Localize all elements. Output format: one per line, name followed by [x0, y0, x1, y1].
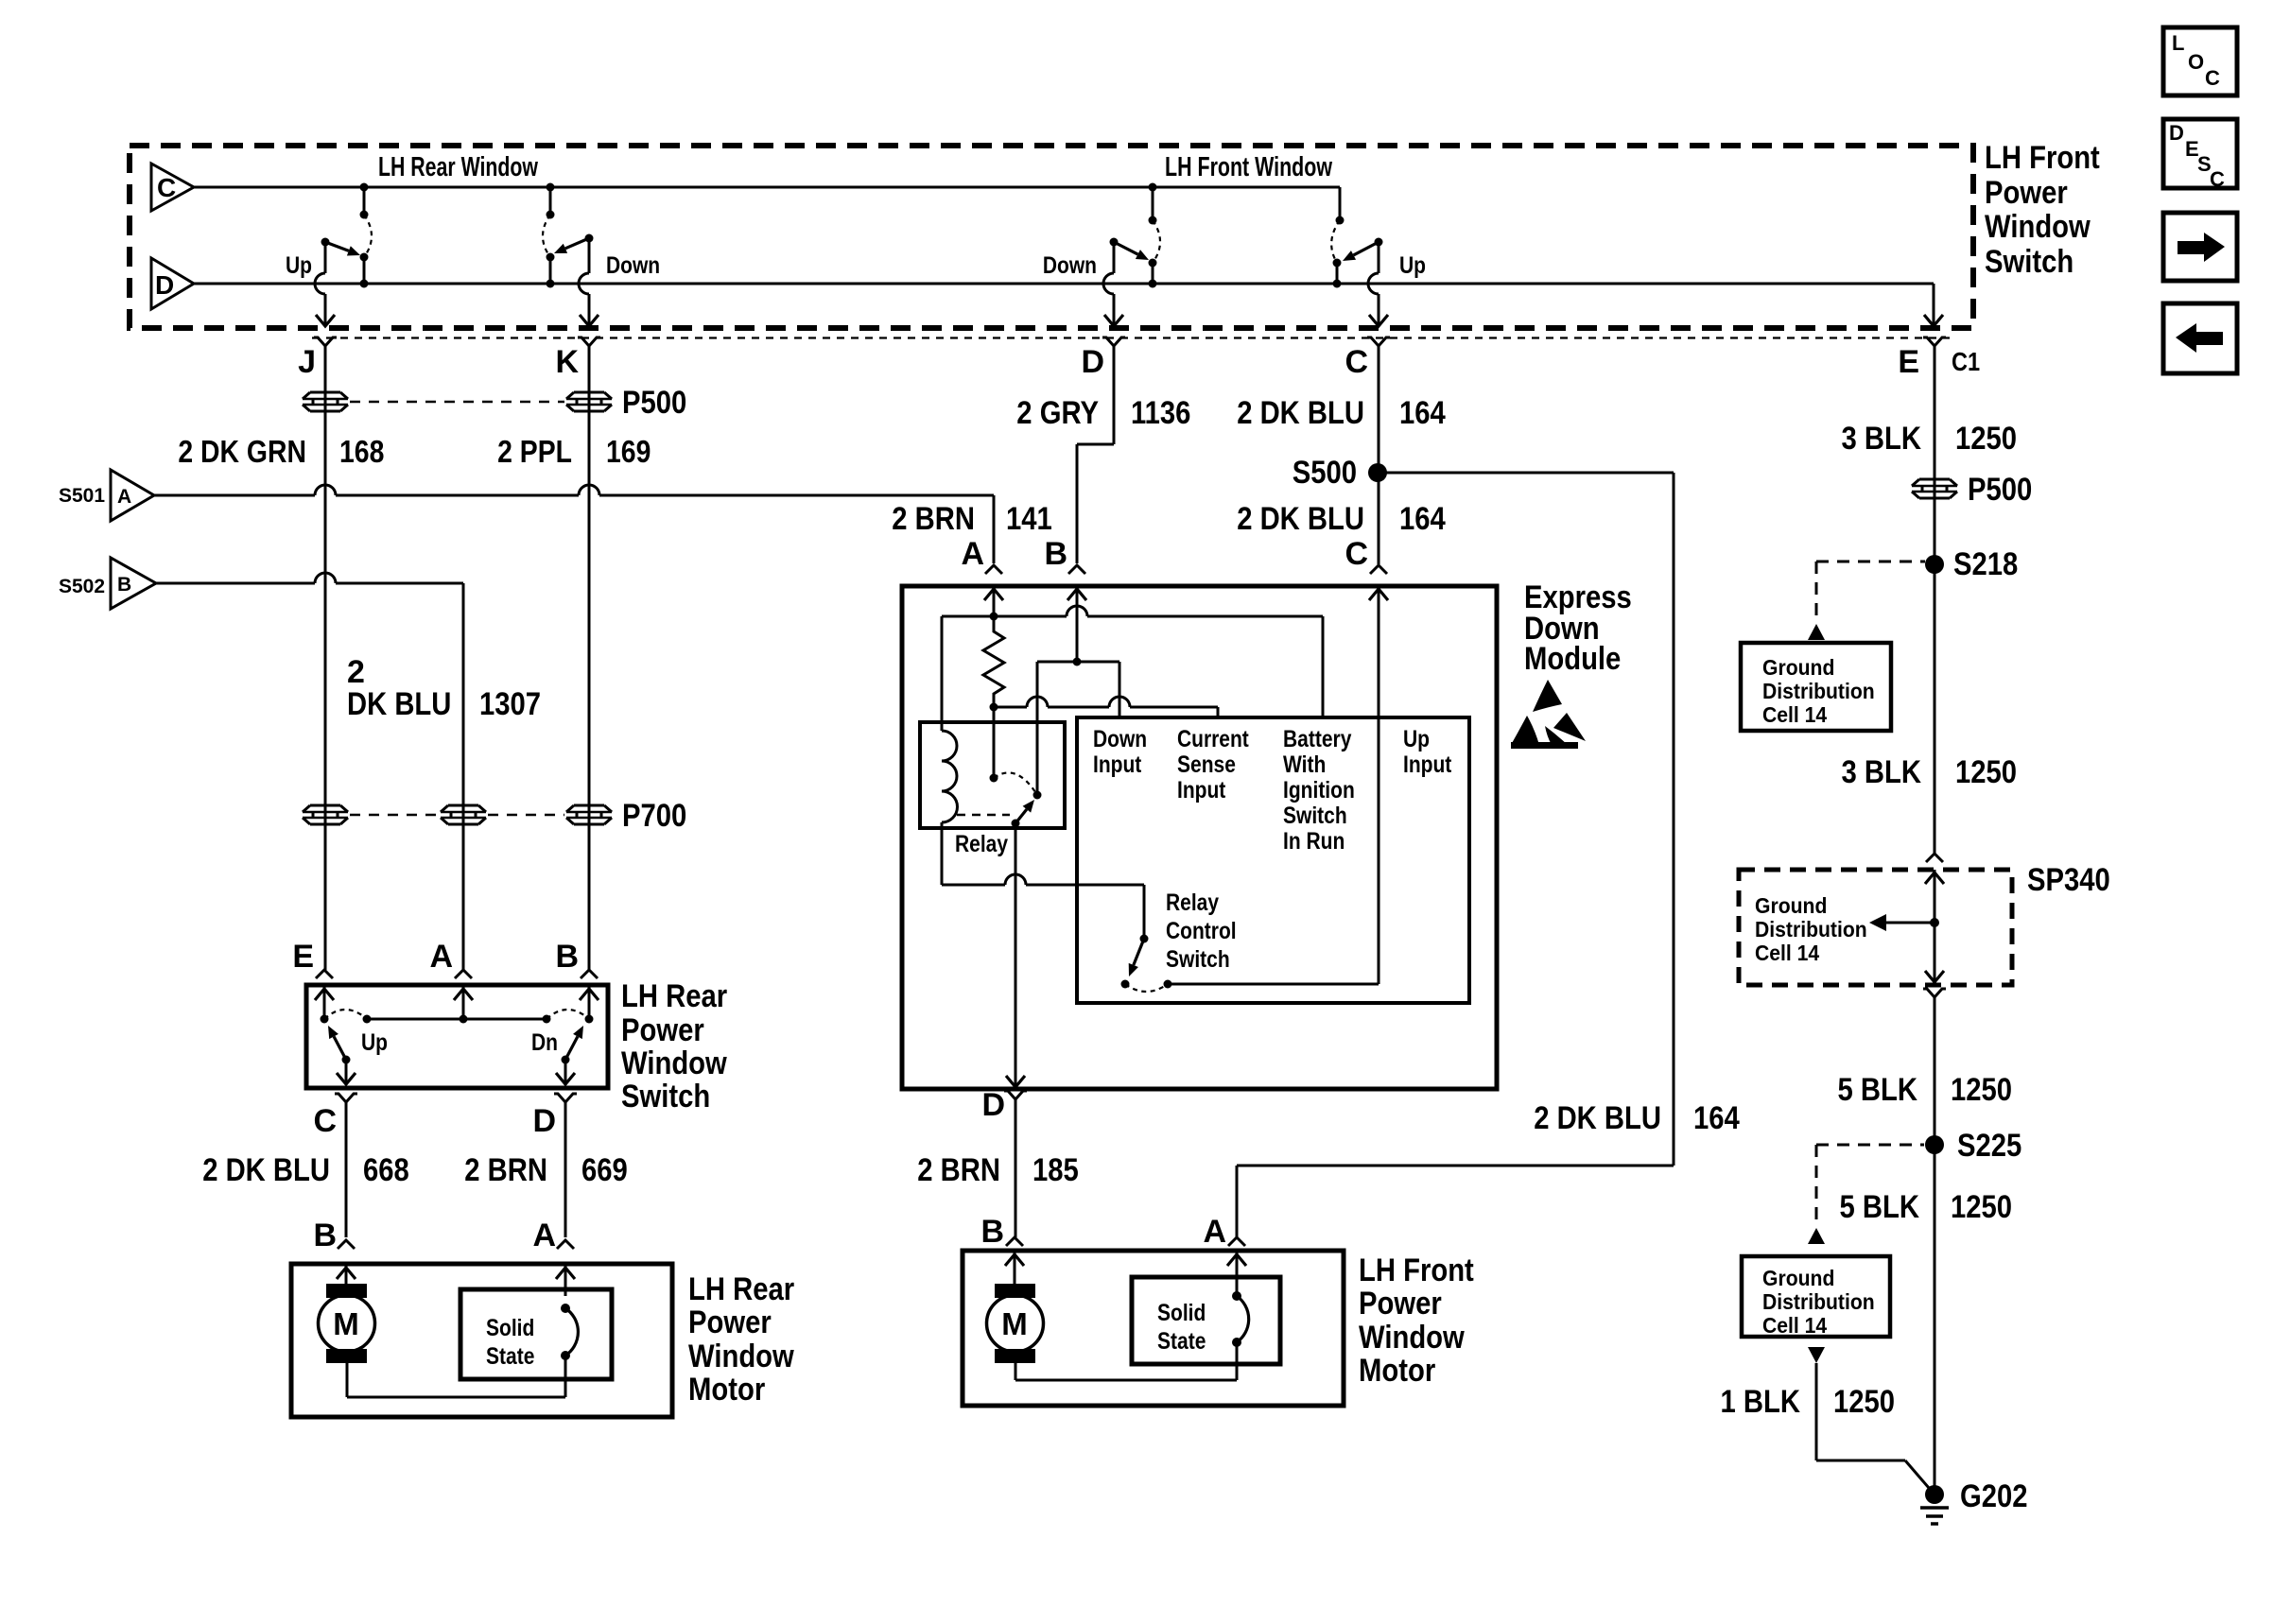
label wire 1 BLK (1250): [1721, 1384, 1801, 1420]
switch rear-up dashed travel arc: [364, 215, 372, 257]
svg-text:Power: Power: [1359, 1286, 1442, 1322]
svg-text:168: 168: [339, 434, 384, 469]
label pin D (rear switch): [532, 1103, 556, 1139]
label circuit 168: [339, 434, 384, 469]
wire ground cell to G202: [1816, 1363, 1935, 1494]
svg-text:LH Rear: LH Rear: [621, 978, 727, 1014]
label Up (front): [1399, 252, 1426, 279]
relay NC contact: [990, 774, 998, 783]
svg-text:D: D: [532, 1103, 556, 1139]
wire down-input feed: [1119, 662, 1121, 717]
rear switch contact bus: [363, 1015, 551, 1024]
relay dashed contact arc: [994, 772, 1037, 795]
label Down Input: [1093, 726, 1147, 778]
svg-text:M: M: [1001, 1306, 1028, 1341]
label wire 5 BLK (1250) lower: [1840, 1189, 1920, 1225]
relay control switch blade: [1129, 935, 1149, 977]
svg-text:Input: Input: [1177, 777, 1226, 803]
motor M (front): [987, 1284, 1044, 1363]
front motor pin B entry arrow: [1005, 1251, 1024, 1284]
svg-text:1307: 1307: [479, 686, 541, 722]
svg-text:2 DK BLU: 2 DK BLU: [1237, 501, 1364, 537]
svg-text:Relay: Relay: [1166, 890, 1219, 916]
wire battery feed: [1322, 616, 1325, 717]
svg-text:Power: Power: [1985, 175, 2068, 211]
svg-text:Window: Window: [688, 1339, 794, 1374]
svg-text:E: E: [1898, 344, 1919, 380]
splice S225: [1925, 1128, 2021, 1164]
module pin C entry arrow: [1369, 586, 1388, 984]
svg-text:Motor: Motor: [688, 1372, 765, 1408]
wire front motor internal loop: [1015, 1342, 1237, 1380]
label wire 2 DK BLU (164) lower: [1237, 501, 1364, 537]
svg-text:C: C: [157, 173, 176, 202]
svg-text:D: D: [2169, 121, 2184, 145]
svg-text:C: C: [1345, 344, 1368, 380]
module pin B entry arrow: [1067, 586, 1086, 662]
svg-text:Cell 14: Cell 14: [1762, 1313, 1827, 1338]
svg-text:DK BLU: DK BLU: [347, 686, 451, 722]
connector P700 on J wire: [303, 805, 348, 824]
wire C line: [194, 186, 1340, 189]
svg-text:Cell 14: Cell 14: [1762, 702, 1827, 727]
svg-text:Down: Down: [1093, 726, 1147, 752]
label Down (rear): [606, 252, 660, 279]
svg-text:2 DK BLU: 2 DK BLU: [1237, 395, 1364, 431]
svg-text:D: D: [155, 270, 174, 300]
svg-text:Ground: Ground: [1762, 1266, 1834, 1290]
wire S501 to module pin A: [154, 485, 994, 563]
label Solid State (front): [1157, 1300, 1206, 1355]
svg-text:141: 141: [1006, 501, 1052, 537]
Solid State box (rear motor): [460, 1289, 612, 1379]
label wire 2 PPL: [497, 434, 572, 469]
svg-text:B: B: [980, 1214, 1004, 1250]
svg-text:D: D: [1081, 344, 1104, 380]
label circuit 1250 a: [1955, 421, 2017, 457]
svg-text:Down: Down: [606, 252, 660, 279]
label P700: [622, 798, 686, 834]
connector pin B fork (front motor): [1006, 1237, 1023, 1246]
relay blade: [1012, 800, 1035, 828]
connector pin C fork (module): [1370, 565, 1387, 574]
wire relay coil to control switch: [942, 822, 1144, 939]
svg-text:185: 185: [1032, 1152, 1079, 1188]
svg-text:1 BLK: 1 BLK: [1721, 1384, 1801, 1420]
rear switch up blade: [328, 1026, 351, 1064]
label pin B (front motor): [980, 1214, 1004, 1250]
switch rear-up contact: [360, 253, 369, 288]
label wire 3 BLK (1250) upper: [1842, 421, 1922, 457]
label wire 2 DK BLU (164) branch: [1534, 1100, 1661, 1136]
icon forward arrow box: [2163, 213, 2237, 281]
svg-text:2 DK BLU: 2 DK BLU: [1534, 1100, 1661, 1136]
module pin A entry arrow: [984, 586, 1003, 616]
svg-text:Up: Up: [286, 252, 312, 279]
svg-text:Ground: Ground: [1755, 893, 1827, 918]
wire rear motor internal loop: [347, 1356, 565, 1397]
svg-text:Module: Module: [1524, 641, 1621, 677]
svg-text:LH Front: LH Front: [1985, 140, 2100, 176]
wire rear switch C output: [337, 1060, 356, 1085]
svg-text:State: State: [486, 1343, 534, 1370]
svg-text:1250: 1250: [1951, 1072, 2012, 1108]
ESD sensitive symbol: [1511, 680, 1586, 749]
svg-text:1250: 1250: [1833, 1384, 1895, 1420]
svg-text:With: With: [1283, 752, 1326, 778]
solid state breaker arc (rear): [561, 1304, 578, 1360]
svg-text:164: 164: [1399, 501, 1446, 537]
label pin A (rear switch): [429, 939, 453, 975]
svg-text:LH Rear: LH Rear: [688, 1271, 794, 1307]
connector triangle D (to window circuit): [151, 258, 194, 309]
node C-line junction (rear down): [547, 183, 555, 219]
svg-text:Switch: Switch: [1283, 803, 1347, 829]
label circuit 164 upper: [1399, 395, 1446, 431]
connector pin D fork (switch): [1102, 337, 1125, 444]
rear switch pin A entry arrow: [454, 985, 473, 1019]
label Battery With Ignition Switch In Run: [1283, 726, 1355, 855]
wire control switch to pin C: [1164, 980, 1379, 989]
svg-text:3 BLK: 3 BLK: [1842, 754, 1922, 790]
svg-text:P500: P500: [622, 385, 686, 421]
dashed link P500: [350, 401, 564, 404]
connector pin B fork (rear motor): [338, 1240, 355, 1249]
svg-text:B: B: [1044, 536, 1067, 572]
svg-text:A: A: [429, 939, 453, 975]
svg-text:A: A: [532, 1218, 556, 1253]
label LH Front Window: [1165, 152, 1332, 182]
label pin C (rear switch): [313, 1103, 337, 1139]
svg-text:Switch: Switch: [1166, 946, 1230, 973]
label wire 2 BRN (185): [917, 1152, 1000, 1188]
label wire 2 DK BLU (164) upper: [1237, 395, 1364, 431]
label connector C1: [1952, 347, 1980, 376]
label Express Down Module: [1524, 579, 1632, 677]
label circuit 164 branch: [1693, 1100, 1740, 1136]
wire K vertical (2 PPL 169): [588, 395, 591, 970]
svg-text:2 BRN: 2 BRN: [892, 501, 975, 537]
label SP340: [2027, 862, 2110, 898]
label P500 (right): [1968, 472, 2032, 508]
wire rear-down pivot to K with hop over D line: [579, 238, 599, 326]
module current-sense bus: [990, 697, 1219, 712]
wire ground to S218: [1934, 564, 1936, 854]
dashed link P700 a: [350, 814, 440, 817]
splice S218: [1925, 546, 2018, 582]
label Relay Control Switch: [1166, 890, 1237, 973]
label circuit 668: [363, 1152, 409, 1188]
svg-text:2 PPL: 2 PPL: [497, 434, 572, 469]
svg-text:B: B: [313, 1218, 337, 1253]
connector triangle S501-A: [59, 470, 154, 521]
svg-text:Control: Control: [1166, 918, 1237, 944]
label Ground Distribution Cell 14 (lower): [1762, 1266, 1875, 1338]
svg-text:S225: S225: [1957, 1128, 2021, 1164]
switch rear-down dashed travel arc: [543, 215, 550, 257]
label Dn (rear switch): [531, 1029, 558, 1056]
wire B to relay NO contact: [1036, 662, 1039, 795]
connector pin E fork (rear switch): [316, 970, 333, 978]
label pin D (switch): [1081, 344, 1104, 380]
label wire 2 DK BLU (668): [202, 1152, 330, 1188]
rear switch dn blade: [562, 1026, 584, 1064]
connector P500 on J wire: [303, 392, 348, 411]
relay control switch contact: [1121, 980, 1130, 989]
svg-text:SP340: SP340: [2027, 862, 2110, 898]
svg-text:Dn: Dn: [531, 1029, 558, 1056]
wire 2GRY jog to module pin B: [1077, 444, 1114, 563]
rear switch pin B entry arrow: [580, 985, 599, 1019]
label LH Rear Window: [378, 152, 538, 182]
label pin A (module): [961, 536, 984, 572]
connector pin D fork (rear switch): [554, 1094, 577, 1237]
svg-text:2 DK BLU: 2 DK BLU: [202, 1152, 330, 1188]
label circuit 1250 d: [1951, 1189, 2012, 1225]
label circuit 164 lower: [1399, 501, 1446, 537]
node B junction: [1073, 658, 1082, 666]
wire J vertical (2 DK GRN 168): [324, 395, 327, 970]
svg-text:Battery: Battery: [1283, 726, 1351, 752]
connector pin A fork (rear switch): [455, 970, 472, 978]
label pin J: [298, 344, 316, 380]
rear motor pin B entry arrow: [337, 1264, 356, 1284]
wire C-line corner down to front up switch: [1336, 187, 1345, 225]
Ground Distribution Cell 14 box (lower): [1742, 1256, 1890, 1337]
Solid State box (front motor): [1132, 1277, 1280, 1364]
svg-text:164: 164: [1693, 1100, 1740, 1136]
LH Front Power Window Switch component dashed box: [130, 146, 1973, 328]
wire front-down pivot to D with hop over D line: [1103, 242, 1123, 326]
rear motor pin A entry arrow: [556, 1264, 575, 1296]
label circuit 141: [1006, 501, 1052, 537]
svg-text:In Run: In Run: [1283, 828, 1345, 855]
svg-text:2 BRN: 2 BRN: [464, 1152, 547, 1188]
label circuit 1250 e: [1833, 1384, 1895, 1420]
resistor R (module): [983, 616, 1004, 707]
svg-text:1250: 1250: [1955, 754, 2017, 790]
svg-text:Distribution: Distribution: [1762, 679, 1875, 703]
wire A to relay NC contact: [993, 707, 996, 778]
label pin B (rear motor): [313, 1218, 337, 1253]
svg-text:Window: Window: [1359, 1320, 1465, 1356]
label wire 5 BLK (1250) upper: [1838, 1072, 1918, 1108]
relay NO contact: [1033, 791, 1042, 800]
connector pin A fork (rear motor): [557, 1240, 574, 1249]
svg-text:C: C: [1345, 536, 1368, 572]
svg-text:LH Front Window: LH Front Window: [1165, 152, 1332, 182]
triangle pointer up (S225 branch): [1808, 1228, 1825, 1244]
label Up (rear switch): [361, 1029, 388, 1056]
ground G202: [1920, 1478, 2028, 1524]
motor M (rear): [319, 1284, 375, 1363]
label Up (rear): [286, 252, 312, 279]
connector pin C fork (switch): [1367, 337, 1390, 395]
svg-text:Ignition: Ignition: [1283, 777, 1355, 803]
connector pin B fork (module): [1068, 565, 1085, 574]
label LH Rear Power Window Switch: [621, 978, 727, 1114]
svg-text:C: C: [2210, 167, 2225, 191]
svg-text:669: 669: [581, 1152, 628, 1188]
connector P500 on K wire: [566, 392, 612, 411]
svg-text:S218: S218: [1953, 546, 2018, 582]
svg-text:Switch: Switch: [621, 1079, 710, 1114]
switch rear-up blade: [321, 238, 361, 256]
svg-text:LH Front: LH Front: [1359, 1253, 1474, 1288]
connector pin A fork (module): [985, 565, 1002, 574]
svg-text:K: K: [555, 344, 579, 380]
svg-text:Up: Up: [1403, 726, 1430, 752]
LH Front Power Window Motor box: [963, 1251, 1344, 1406]
svg-text:668: 668: [363, 1152, 409, 1188]
front motor pin A entry arrow: [1227, 1251, 1246, 1296]
label circuit 1307: [479, 686, 541, 722]
svg-text:E: E: [292, 939, 314, 975]
label pin B (module): [1044, 536, 1067, 572]
label circuit 1250 c: [1951, 1072, 2012, 1108]
svg-text:A: A: [1203, 1214, 1226, 1250]
switch front-down contact: [1149, 259, 1157, 288]
wire front-up pivot to C with hop over D line: [1368, 242, 1388, 326]
dashed branch to ground distribution (S218): [1816, 561, 1925, 624]
module bus from pin B: [1037, 661, 1119, 664]
svg-text:Input: Input: [1403, 752, 1452, 778]
svg-text:C1: C1: [1952, 347, 1980, 376]
label circuit 169: [606, 434, 651, 469]
connector pin D fork (module): [1004, 1091, 1027, 1237]
svg-text:M: M: [333, 1306, 359, 1341]
svg-text:J: J: [298, 344, 316, 380]
connector P700 on A wire: [441, 805, 486, 824]
svg-text:Cell 14: Cell 14: [1755, 941, 1819, 965]
rear switch pin E entry arrow: [315, 985, 334, 1019]
svg-text:2: 2: [347, 654, 365, 690]
label circuit 1136: [1131, 395, 1190, 431]
node C-line junction (front down): [1149, 183, 1157, 225]
label circuit 185: [1032, 1152, 1079, 1188]
icon back arrow box: [2163, 303, 2237, 373]
label pin C (module): [1345, 536, 1368, 572]
label wire 2 BRN (141): [892, 501, 975, 537]
dashed branch to ground distribution (S225): [1816, 1145, 1924, 1228]
wire D line to pin E: [1924, 284, 1943, 326]
relay coil: [942, 616, 958, 822]
label wire 3 BLK (1250) lower: [1842, 754, 1922, 790]
label pin E (rear switch): [292, 939, 314, 975]
wire module pin D output: [1006, 823, 1025, 1088]
wire rear-up pivot to J with hop over D line: [315, 242, 335, 326]
connector P700 on K wire: [566, 805, 612, 824]
svg-text:169: 169: [606, 434, 651, 469]
LH Rear Power Window Switch box: [306, 985, 608, 1088]
switch front-up contact: [1333, 259, 1342, 288]
triangle pointer up (S218 branch): [1808, 624, 1825, 640]
label Ground Distribution Cell 14 (upper): [1762, 655, 1875, 727]
connector pin J fork: [314, 337, 337, 395]
svg-text:O: O: [2188, 50, 2204, 74]
svg-text:P700: P700: [622, 798, 686, 834]
label pin B (rear switch): [555, 939, 579, 975]
svg-text:A: A: [117, 486, 131, 508]
connector pin B fork (rear switch): [581, 970, 598, 978]
label pin K: [555, 344, 579, 380]
label pin A (front motor): [1203, 1214, 1226, 1250]
label circuit 1250 b: [1955, 754, 2017, 790]
connector fork below SP340: [1923, 989, 1946, 1494]
svg-text:B: B: [555, 939, 579, 975]
connector pin A fork (front motor): [1228, 1237, 1245, 1246]
svg-text:Switch: Switch: [1985, 244, 2073, 280]
svg-text:5 BLK: 5 BLK: [1840, 1189, 1920, 1225]
switch rear-down blade: [554, 234, 594, 254]
svg-text:G202: G202: [1960, 1478, 2028, 1514]
wire current sense feed: [1217, 707, 1220, 717]
label wire 2 BRN (669): [464, 1152, 547, 1188]
svg-text:C: C: [313, 1103, 337, 1139]
label wire 2 GRY: [1016, 395, 1099, 431]
svg-text:S500: S500: [1293, 455, 1357, 491]
svg-text:Power: Power: [621, 1012, 704, 1048]
switch front-down blade: [1110, 238, 1150, 261]
Express Down Module box: [902, 586, 1497, 1089]
LH Rear Power Window Motor box: [291, 1264, 672, 1417]
svg-text:3 BLK: 3 BLK: [1842, 421, 1922, 457]
triangle pointer down (to G202): [1808, 1347, 1825, 1363]
svg-text:B: B: [117, 574, 131, 596]
label pin A (rear motor): [532, 1218, 556, 1253]
SP340 arrow to ground distribution: [1869, 914, 1935, 931]
label LH Rear Power Window Motor: [688, 1271, 794, 1408]
label circuit 669: [581, 1152, 628, 1188]
svg-text:5 BLK: 5 BLK: [1838, 1072, 1918, 1108]
connector pin C fork (rear switch): [335, 1094, 357, 1237]
svg-text:Relay: Relay: [955, 831, 1008, 857]
label LH Front Power Window Motor: [1359, 1253, 1474, 1389]
svg-text:D: D: [981, 1087, 1005, 1123]
connector pin K fork: [578, 337, 600, 395]
label Down (front): [1043, 252, 1097, 279]
LH Front Power Window Switch label: [1985, 140, 2100, 280]
svg-text:Sense: Sense: [1177, 752, 1236, 778]
Ground Distribution Cell 14 box (upper): [1741, 643, 1891, 731]
label Ground Distribution Cell 14 (SP340): [1755, 893, 1867, 965]
label wire 2 / DK BLU (1307): [347, 654, 451, 722]
label pin E: [1898, 344, 1919, 380]
SP340 internal wire and arrows: [1925, 870, 1944, 985]
svg-text:2 GRY: 2 GRY: [1016, 395, 1099, 431]
connector pin E fork: [1923, 337, 1946, 564]
svg-text:S502: S502: [59, 576, 105, 597]
svg-text:Window: Window: [1985, 209, 2091, 245]
switch rear-down contact: [547, 253, 555, 288]
node C-line junction (rear up): [360, 183, 369, 219]
svg-text:LH Rear Window: LH Rear Window: [378, 152, 538, 182]
solid state breaker arc (front): [1232, 1291, 1249, 1347]
module inner function box: [1077, 717, 1469, 1003]
svg-text:1250: 1250: [1955, 421, 2017, 457]
connector triangle S502-B: [59, 558, 156, 609]
wire D line: [194, 283, 1934, 285]
splice SP340 dashed box: [1739, 870, 2012, 985]
label P500 (left): [622, 385, 686, 421]
wire S502 to rear switch pin A: [156, 573, 463, 970]
dashed link P700 b: [488, 814, 564, 817]
label pin D (module): [981, 1087, 1005, 1123]
wire rear switch D output: [556, 1060, 575, 1085]
svg-text:C: C: [2205, 66, 2220, 90]
relay control switch dashed arc: [1125, 984, 1168, 992]
module bus from pin A: [942, 606, 1323, 621]
